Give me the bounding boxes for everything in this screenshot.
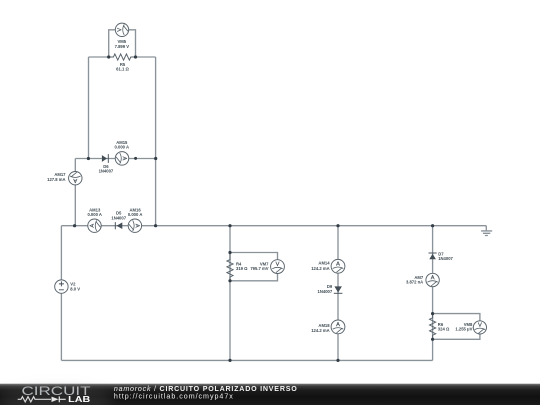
wire VM8 loop: [433, 314, 480, 340]
wire AM17 branch: [74, 159, 76, 226]
junction D7 column on node row: [431, 224, 434, 227]
junction VM5 loop left on R5 row: [107, 55, 110, 58]
svg-text:http://circuitlab.com/cmyp47x: http://circuitlab.com/cmyp47x: [114, 392, 234, 400]
wire resistor row right: [136, 56, 156, 58]
diode D5: [117, 222, 123, 229]
svg-text:61.1 Ω: 61.1 Ω: [116, 67, 129, 72]
junction VM7 loop bottom: [228, 279, 231, 282]
resistor R6: [430, 314, 436, 340]
wire V2 branch: [60, 226, 62, 361]
svg-text:0.000 A: 0.000 A: [128, 212, 143, 217]
wire top-left vertical: [88, 57, 90, 159]
wire voltmeter VM5 loop: [109, 30, 136, 57]
junction D9 column on node row: [336, 224, 339, 227]
svg-text:1.255 μV: 1.255 μV: [455, 327, 472, 332]
wire bottom return: [61, 359, 432, 361]
wire D9 column: [337, 226, 339, 361]
svg-text:1N4007: 1N4007: [111, 215, 126, 220]
junction VM8 loop top: [431, 312, 434, 315]
junction D9 column on bottom return: [336, 359, 339, 362]
svg-text:124.2 mA: 124.2 mA: [311, 266, 329, 271]
diode D9: [334, 286, 342, 292]
wire top-right vertical: [155, 57, 157, 226]
svg-text:0.000 A: 0.000 A: [115, 145, 130, 150]
junction R4 column on node row: [228, 224, 231, 227]
ammeter AM18: [331, 320, 345, 334]
wire R4 column: [229, 226, 231, 361]
svg-text:1N4007: 1N4007: [99, 169, 114, 174]
wire bottom node row: [61, 225, 486, 227]
svg-text:1N4007: 1N4007: [318, 289, 333, 294]
footer logo glow: [0, 386, 114, 405]
wire D6 row: [75, 158, 155, 160]
voltmeter VM5: [115, 23, 128, 36]
diode D7: [429, 254, 436, 259]
svg-text:0.000 A: 0.000 A: [87, 212, 102, 217]
ammeter AM17: [69, 172, 82, 185]
ammeter AM7: [426, 273, 439, 286]
voltmeter VM8: [473, 321, 486, 334]
svg-text:124.2 mA: 124.2 mA: [311, 328, 329, 333]
ground: [481, 231, 492, 236]
junction VM7 loop top: [228, 251, 231, 254]
junction top-left vertical on D6 row: [87, 157, 90, 160]
junction AM17 branch on node row: [73, 224, 76, 227]
wire resistor row left: [89, 56, 109, 58]
wire D7 column: [432, 226, 434, 361]
ammeter AM14: [331, 259, 345, 273]
svg-text:7.899 V: 7.899 V: [115, 44, 130, 49]
voltmeter VM7: [271, 260, 285, 274]
junction D6 row with right vertical: [154, 157, 157, 160]
ammeter AM15: [115, 152, 129, 166]
voltage source V2: [55, 280, 68, 293]
svg-text:1N4007: 1N4007: [438, 256, 453, 261]
junction VM5 loop right on R5 row: [134, 55, 137, 58]
wire VM7 loop: [230, 253, 278, 281]
resistor R5: [109, 54, 136, 60]
junction VM8 loop bottom: [431, 338, 434, 341]
svg-text:LAB: LAB: [68, 395, 90, 404]
svg-text:795.7 mV: 795.7 mV: [250, 266, 268, 271]
junction right vertical on node row: [154, 224, 157, 227]
ammeter AM13: [88, 219, 101, 232]
diode D6: [102, 155, 107, 162]
svg-text:127.8 mA: 127.8 mA: [47, 177, 65, 182]
logo diode: [52, 397, 59, 402]
svg-text:324 Ω: 324 Ω: [438, 327, 450, 332]
logo resistor zigzag: [18, 397, 51, 402]
junction wire end right of AM15: [134, 157, 137, 160]
svg-text:3.872 nA: 3.872 nA: [406, 280, 423, 285]
ammeter AM16: [128, 219, 141, 232]
resistor R4: [227, 253, 233, 281]
svg-text:8.0 V: 8.0 V: [70, 286, 80, 291]
svg-text:319 Ω: 319 Ω: [236, 266, 248, 271]
junction R4 column on bottom return: [228, 359, 231, 362]
wire ground stub: [485, 226, 487, 231]
